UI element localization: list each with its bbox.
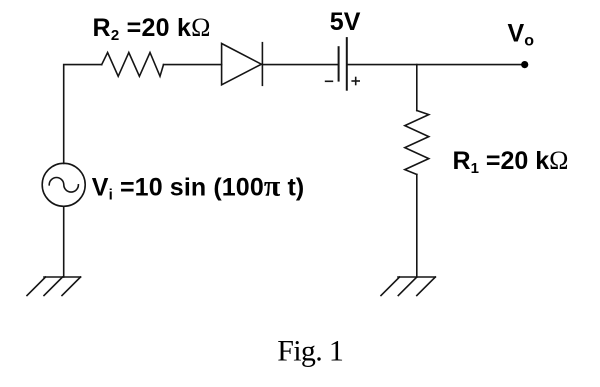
diode D1: [222, 43, 263, 86]
resistor R2: [102, 53, 164, 77]
node Vo output dot: [521, 61, 528, 68]
svg-text:Vi =10 sin (100π t): Vi =10 sin (100π t): [92, 170, 305, 204]
svg-text:R2 =20 kΩ: R2 =20 kΩ: [93, 13, 211, 44]
wire: R2 to diode anode: [164, 64, 222, 66]
svg-text:R1 =20 kΩ: R1 =20 kΩ: [453, 146, 569, 177]
svg-text:5V: 5V: [330, 8, 361, 36]
wire: battery to output node: [347, 64, 525, 66]
svg-text:Vo: Vo: [508, 19, 535, 49]
source Vi (sine source): [42, 163, 85, 206]
svg-text:Fig. 1: Fig. 1: [277, 334, 343, 367]
wire: source to left ground: [63, 206, 65, 277]
wire: junction down to R1: [416, 65, 418, 111]
battery minus sign: [326, 80, 333, 82]
ground (left): [27, 277, 81, 296]
resistor R1: [405, 111, 429, 175]
ground (right): [381, 277, 435, 296]
battery V1 5V: [339, 38, 347, 90]
wire: diode cathode to battery: [262, 64, 338, 66]
wire: R1 to right ground: [416, 174, 418, 277]
battery plus sign: [352, 78, 359, 85]
wire: left vertical from source to top rail corner: [64, 65, 102, 164]
